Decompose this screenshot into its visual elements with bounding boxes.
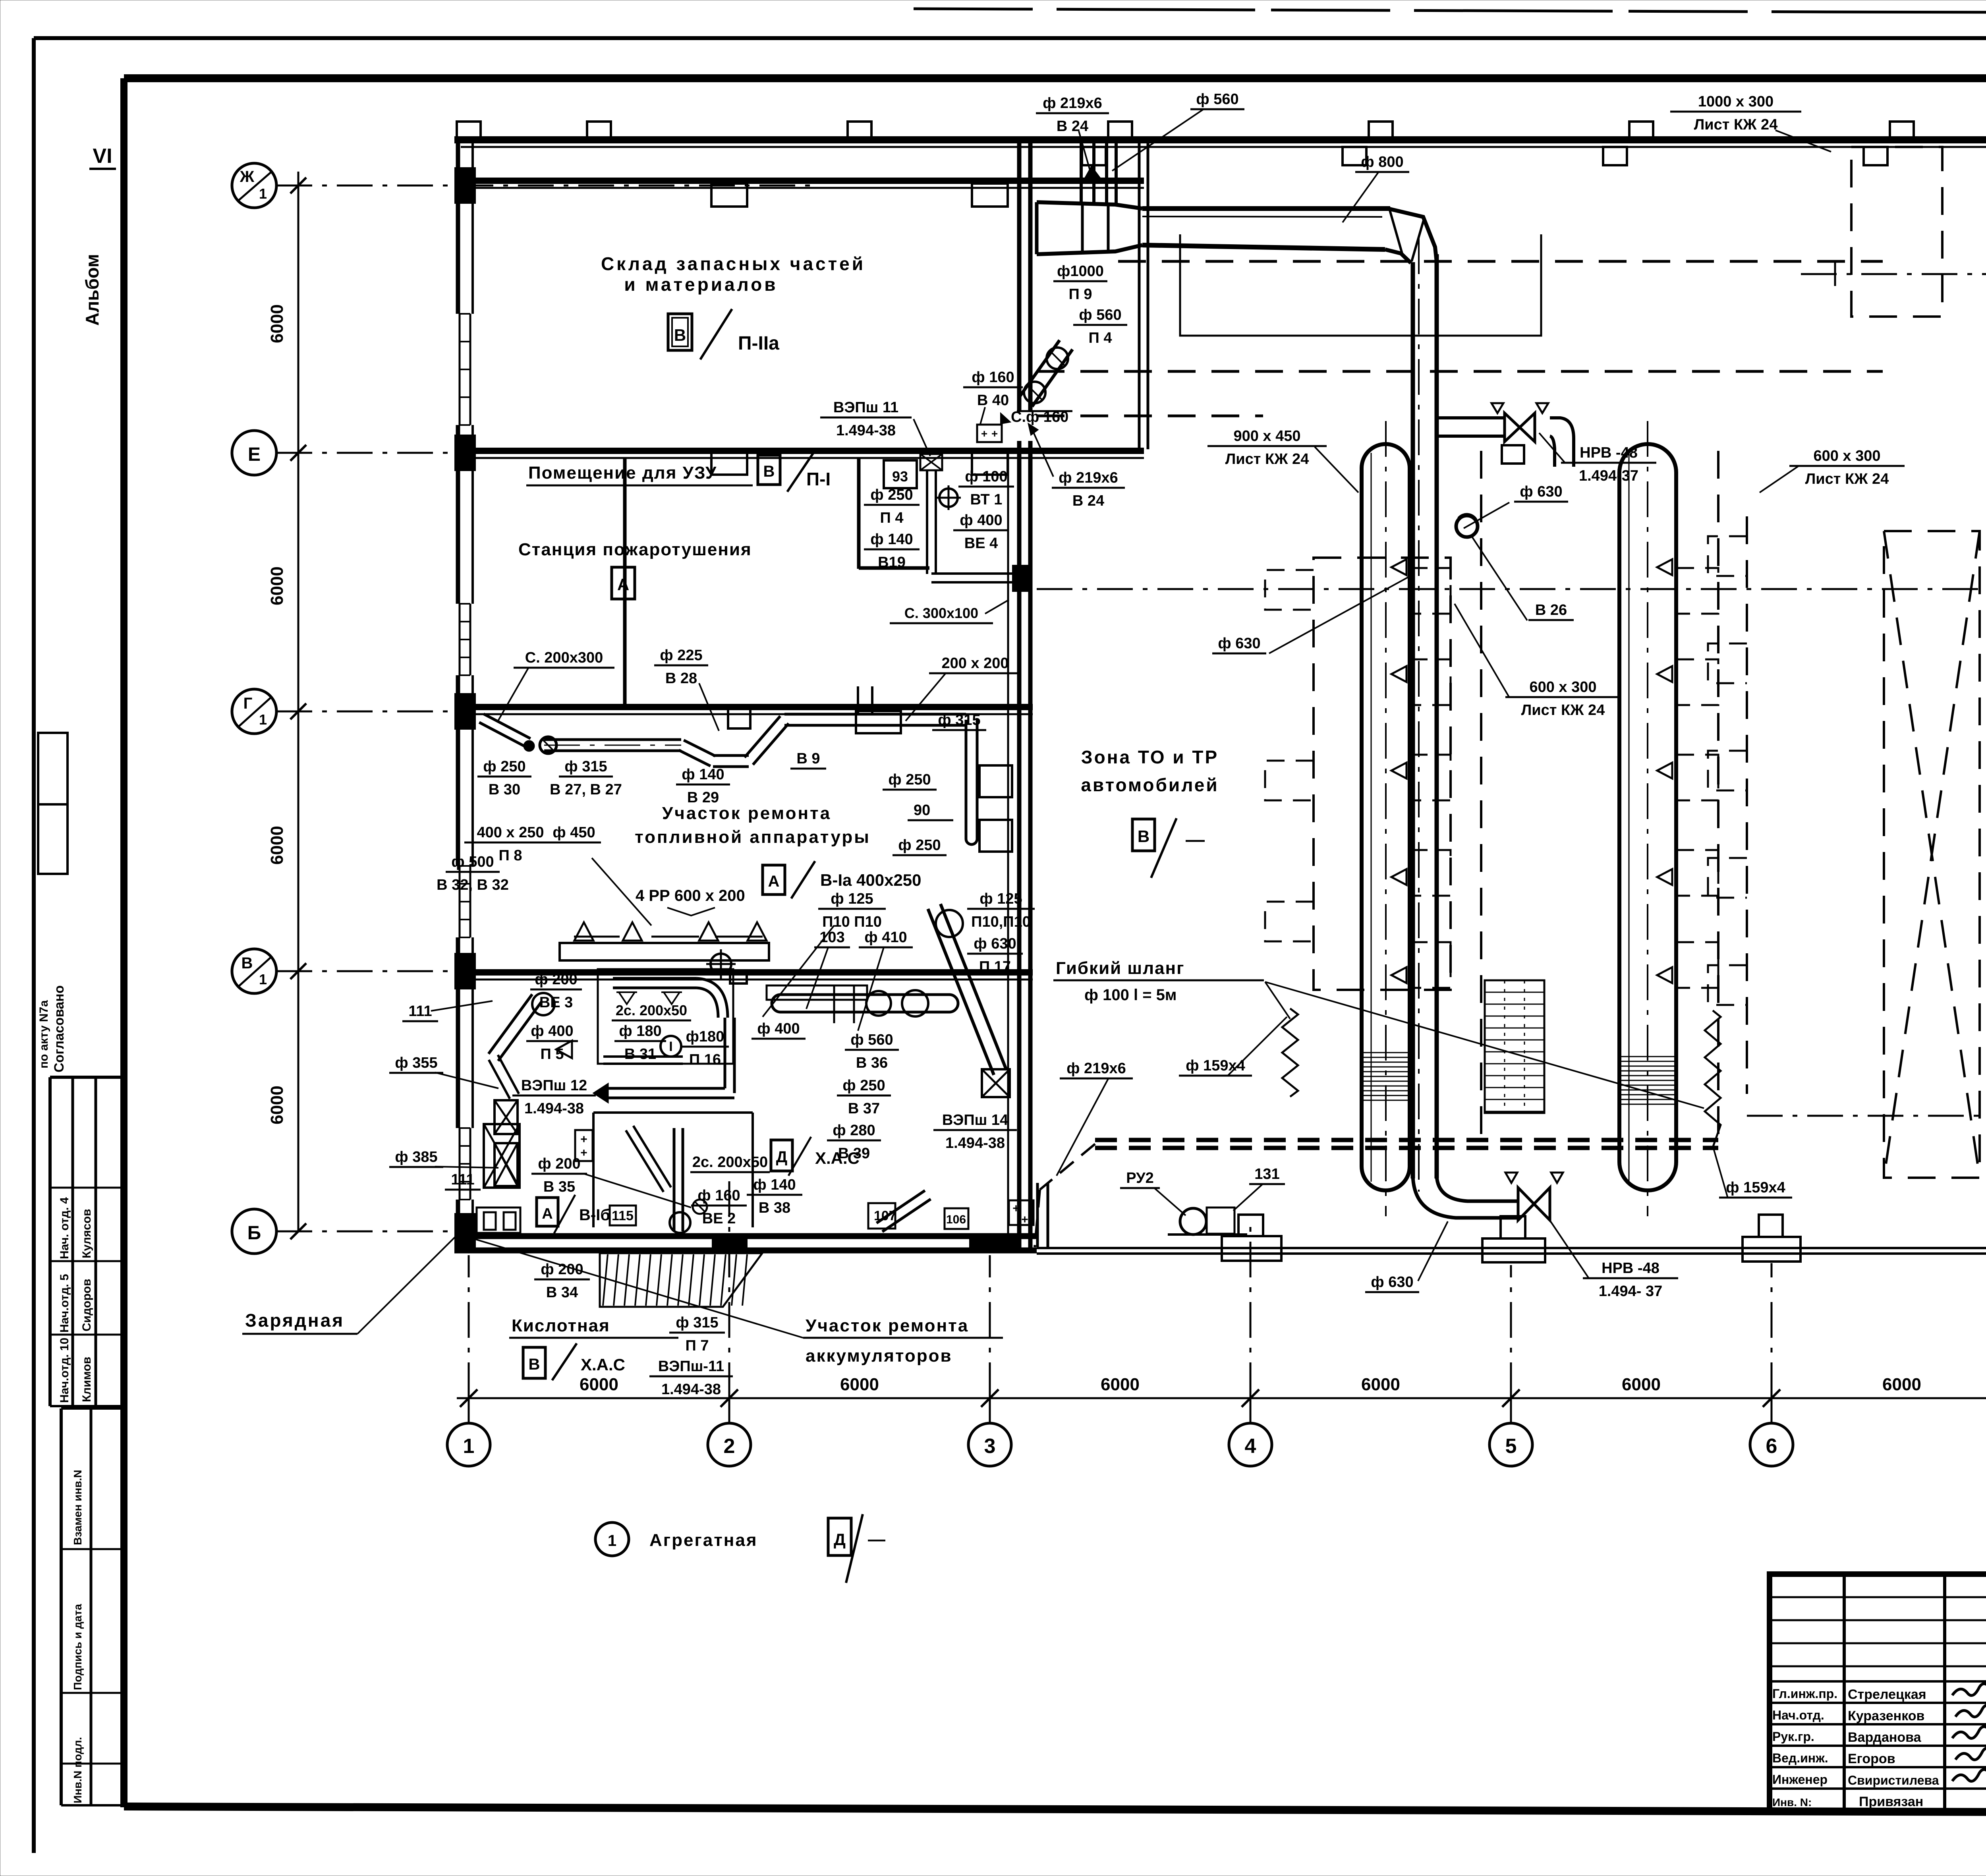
svg-text:+: + <box>991 427 998 440</box>
thin chamber outline around duct <box>1180 234 1541 336</box>
valve NRV-48 top bowtie <box>1505 413 1520 442</box>
underfloor duct dashed rect left <box>1314 558 1451 990</box>
label A V-Ib <box>537 1198 558 1226</box>
wall top pilasters <box>457 122 481 141</box>
svg-text:2: 2 <box>724 1435 735 1458</box>
svg-text:В 39: В 39 <box>838 1145 870 1162</box>
svg-text:ВЭПш 12: ВЭПш 12 <box>521 1077 587 1094</box>
axis circle 4 <box>1229 1423 1272 1466</box>
boxes 107 106 <box>868 1203 895 1229</box>
svg-text:В 24: В 24 <box>1072 493 1104 509</box>
svg-text:106: 106 <box>946 1213 966 1226</box>
svg-text:ВЕ 2: ВЕ 2 <box>702 1210 736 1227</box>
svg-text:Климов: Климов <box>80 1357 93 1402</box>
acid room machines row <box>477 1208 520 1233</box>
svg-text:А: А <box>768 873 780 890</box>
agregat room box outline <box>598 969 733 1064</box>
svg-text:П 9: П 9 <box>1068 286 1092 303</box>
dash-dot line y2809 <box>1747 1115 1986 1117</box>
svg-text:ВЭПш 11: ВЭПш 11 <box>833 399 898 416</box>
svg-text:В-Iа 400х250: В-Iа 400х250 <box>820 871 922 889</box>
svg-text:В 24: В 24 <box>1057 118 1088 135</box>
label uchastok line leader <box>465 1236 803 1338</box>
svg-text:ф 560: ф 560 <box>1196 91 1238 108</box>
axis circle В/1 <box>232 949 276 993</box>
svg-text:П10 П10: П10 П10 <box>822 914 882 930</box>
plus box agregat <box>575 1130 593 1161</box>
wall axis V1 interior <box>454 969 1033 976</box>
columns on axis Zh1 wall <box>711 184 747 207</box>
drawing frame <box>124 74 1986 82</box>
svg-text:1.494-38: 1.494-38 <box>661 1381 721 1398</box>
svg-text:6000: 6000 <box>267 826 287 865</box>
footing axis 6 <box>1743 1237 1801 1262</box>
svg-text:3: 3 <box>984 1435 996 1458</box>
svg-text:Лист КЖ 24: Лист КЖ 24 <box>1694 116 1778 133</box>
svg-text:Д: Д <box>834 1530 846 1549</box>
dashed line horizontal mid <box>1037 370 1883 373</box>
svg-text:4: 4 <box>1245 1435 1256 1458</box>
svg-text:ф 315: ф 315 <box>938 712 980 728</box>
machine duct assembly V1 room <box>780 993 949 996</box>
symbol D XAC battery <box>771 1140 792 1171</box>
svg-text:ф 180: ф 180 <box>619 1023 661 1039</box>
svg-text:ф 100 l = 5м: ф 100 l = 5м <box>1084 986 1177 1004</box>
svg-text:1: 1 <box>463 1435 475 1458</box>
wall axis G1 interior <box>454 704 1033 710</box>
svg-text:Помещение для УЗУ: Помещение для УЗУ <box>528 463 717 483</box>
agregat room duct 2s200x50 <box>613 977 697 980</box>
svg-text:В 34: В 34 <box>546 1284 578 1301</box>
partition station wall left <box>623 458 627 707</box>
svg-text:ф 355: ф 355 <box>395 1055 437 1071</box>
UZU room bottom wall <box>859 566 929 570</box>
dashed line horizontal upper <box>1118 260 1883 263</box>
UZU plus box <box>977 425 1002 442</box>
svg-text:ф 315: ф 315 <box>676 1314 718 1331</box>
RU2 circle <box>1180 1208 1206 1235</box>
symbol A box <box>612 567 635 599</box>
svg-text:Д: Д <box>776 1148 788 1166</box>
svg-text:Нач.отд. 5: Нач.отд. 5 <box>58 1274 71 1333</box>
svg-text:Варданова: Варданова <box>1848 1730 1922 1745</box>
svg-text:I: I <box>669 1039 672 1054</box>
UZU duct wall crossing damper <box>1012 565 1029 592</box>
svg-text:Лист КЖ 24: Лист КЖ 24 <box>1521 702 1605 719</box>
svg-text:6000: 6000 <box>1361 1375 1400 1394</box>
svg-text:ф 225: ф 225 <box>660 647 702 664</box>
svg-text:П-I: П-I <box>806 469 831 489</box>
svg-text:В 31: В 31 <box>624 1046 656 1063</box>
dash-dot line sklad <box>1801 273 1986 275</box>
svg-text:В: В <box>763 463 775 480</box>
svg-text:ф 250: ф 250 <box>870 487 913 503</box>
valve box below <box>1502 445 1524 464</box>
svg-text:В 27, В 27: В 27, В 27 <box>550 781 622 798</box>
symbol V dash zona <box>1132 819 1155 851</box>
svg-text:ВТ 1: ВТ 1 <box>970 491 1003 508</box>
underfloor stub squares far left <box>1265 570 1314 610</box>
bowtie fan lower 1 <box>495 1100 518 1134</box>
svg-text:РУ2: РУ2 <box>1126 1170 1154 1186</box>
svg-text:А: А <box>542 1206 553 1222</box>
svg-text:НРВ -48: НРВ -48 <box>1580 444 1638 461</box>
svg-text:+: + <box>1012 1202 1020 1215</box>
svg-text:Нач.отд.: Нач.отд. <box>1772 1708 1824 1722</box>
svg-text:VI: VI <box>93 145 112 168</box>
axis circle Г/1 <box>232 689 276 734</box>
svg-text:В 40: В 40 <box>977 392 1009 409</box>
svg-text:ф 250: ф 250 <box>842 1077 885 1094</box>
svg-text:С.ф 160: С.ф 160 <box>1011 409 1068 425</box>
svg-text:1000 х 300: 1000 х 300 <box>1698 93 1773 110</box>
dashed line horizontal short <box>1037 415 1263 417</box>
svg-text:Участок ремонта: Участок ремонта <box>806 1316 969 1335</box>
title block signatures scribbles <box>1952 1684 1986 1696</box>
svg-text:93: 93 <box>892 468 908 485</box>
svg-text:С. 300х100: С. 300х100 <box>904 605 978 621</box>
svg-text:400 х 250: 400 х 250 <box>477 824 544 841</box>
symbol V P-I <box>758 455 780 485</box>
footing axis 4 <box>1222 1236 1281 1261</box>
svg-text:В 30: В 30 <box>489 781 520 798</box>
svg-text:Х.А.С: Х.А.С <box>581 1355 625 1374</box>
svg-text:ф 160: ф 160 <box>972 369 1014 386</box>
svg-text:В 38: В 38 <box>759 1200 790 1216</box>
svg-text:ф 280: ф 280 <box>833 1122 875 1139</box>
svg-text:П 17: П 17 <box>979 958 1011 975</box>
partition station wall right <box>857 458 861 569</box>
wall axis B exterior <box>454 1233 1037 1239</box>
UZU fan unit hatch box <box>920 454 942 470</box>
hose leader lines <box>1265 982 1290 1019</box>
wall top exterior <box>454 136 1986 143</box>
svg-text:Склад запасных частей: Склад запасных частей <box>601 253 865 274</box>
svg-text:ф 219х6: ф 219х6 <box>1059 469 1118 486</box>
svg-text:ф 400: ф 400 <box>757 1020 800 1037</box>
svg-text:ф 250: ф 250 <box>898 837 941 854</box>
duct P9 horizontal ф800 <box>1142 206 1390 211</box>
svg-text:5: 5 <box>1505 1435 1517 1458</box>
svg-text:В 29: В 29 <box>687 789 719 806</box>
svg-text:Альбом: Альбом <box>82 254 102 326</box>
pipe ф159x4 heavy dashed run <box>1095 1138 1718 1142</box>
wall axis E interior <box>454 448 1144 454</box>
valve NRV-48 bottom bowtie <box>1518 1188 1534 1220</box>
svg-text:В 9: В 9 <box>796 750 820 767</box>
svg-text:Г: Г <box>243 695 253 712</box>
svg-text:600 х 300: 600 х 300 <box>1529 679 1596 696</box>
svg-text:Зона ТО и ТР: Зона ТО и ТР <box>1081 747 1219 767</box>
svg-text:—: — <box>1186 829 1205 850</box>
wall west column blocks <box>454 167 476 204</box>
svg-text:Кислотная: Кислотная <box>512 1316 610 1335</box>
svg-text:Ж: Ж <box>240 168 255 185</box>
svg-text:В 32, В 32: В 32, В 32 <box>437 877 509 893</box>
svg-text:ф 315: ф 315 <box>564 758 607 775</box>
svg-text:6000: 6000 <box>267 1086 287 1124</box>
svg-text:600 х 300: 600 х 300 <box>1813 448 1880 464</box>
svg-text:+: + <box>1021 1213 1028 1226</box>
svg-text:Егоров: Егоров <box>1848 1751 1895 1766</box>
svg-text:Вед.инж.: Вед.инж. <box>1772 1751 1828 1765</box>
svg-text:107: 107 <box>874 1208 896 1223</box>
svg-text:Куразенков: Куразенков <box>1848 1708 1924 1723</box>
supply nozzles triangles left duct <box>1391 559 1406 575</box>
svg-text:ф 250: ф 250 <box>483 758 525 775</box>
svg-text:В: В <box>1138 827 1149 846</box>
symbol V XAC <box>523 1347 545 1378</box>
bottom axis dash-dot lines <box>468 1255 470 1398</box>
svg-text:2с. 200х50: 2с. 200х50 <box>616 1002 687 1018</box>
axis circle Е <box>232 431 276 475</box>
svg-text:6000: 6000 <box>267 304 287 343</box>
flexible hose zigzag right <box>1705 1010 1721 1148</box>
svg-text:Привязан: Привязан <box>1859 1794 1923 1809</box>
svg-text:П-IIа: П-IIа <box>738 333 779 354</box>
exhaust duct right stadium <box>1619 444 1676 1190</box>
wall axis Zh1 interior <box>454 178 1144 184</box>
svg-text:131: 131 <box>1254 1166 1279 1182</box>
svg-text:П 7: П 7 <box>685 1337 709 1354</box>
axis circle 5 <box>1489 1423 1532 1466</box>
svg-text:900 х 450: 900 х 450 <box>1233 428 1300 444</box>
svg-text:Взамен инв.N: Взамен инв.N <box>71 1470 84 1545</box>
svg-text:П 5: П 5 <box>540 1046 564 1063</box>
svg-text:2с. 200х50: 2с. 200х50 <box>692 1154 768 1171</box>
axis circle 3 <box>968 1423 1011 1466</box>
svg-text:А: А <box>617 575 629 594</box>
svg-text:В 37: В 37 <box>848 1100 880 1117</box>
svg-text:Подпись и дата: Подпись и дата <box>71 1604 84 1690</box>
svg-text:Станция пожаротушения: Станция пожаротушения <box>518 540 752 559</box>
bowtie fan lower 2 <box>495 1143 518 1186</box>
title block frame <box>1770 1574 1986 1811</box>
svg-text:П 4: П 4 <box>1088 330 1112 346</box>
duct stub arrow marks <box>1084 167 1101 180</box>
svg-text:Зарядная: Зарядная <box>245 1310 344 1331</box>
bottom dimension line <box>457 1397 1986 1399</box>
duct P9 elbow <box>1386 208 1437 262</box>
svg-text:—: — <box>868 1530 885 1549</box>
svg-text:Лист КЖ 24: Лист КЖ 24 <box>1805 471 1889 487</box>
svg-text:Кулясов: Кулясов <box>80 1209 93 1258</box>
svg-text:111: 111 <box>408 1003 432 1020</box>
duct riser through G1 wall <box>857 686 859 713</box>
small triangle P5 <box>556 1041 572 1058</box>
svg-text:Нач.отд. 10: Нач.отд. 10 <box>58 1338 71 1403</box>
page outer border <box>34 36 1986 40</box>
duct stub from west wall G1 <box>479 723 526 747</box>
svg-text:ф 250: ф 250 <box>888 771 931 788</box>
svg-text:ф 160: ф 160 <box>697 1187 740 1204</box>
stairs hatch <box>1485 980 1544 1113</box>
axis circle 2 <box>708 1423 751 1466</box>
axis circle Ж/1 <box>232 163 276 208</box>
duct run fuel room zigzag <box>544 750 681 752</box>
column on axis G1 wall <box>728 708 750 728</box>
svg-text:1.494-38: 1.494-38 <box>524 1100 584 1117</box>
svg-text:ВЕ 4: ВЕ 4 <box>964 535 998 552</box>
svg-text:П10,П10: П10,П10 <box>971 914 1031 930</box>
ramp hatched <box>600 1253 762 1307</box>
wall west exterior <box>456 140 460 1250</box>
supply nozzles triangles right duct <box>1657 559 1672 575</box>
dash-dot line y1483 <box>1037 588 1986 590</box>
fan circle B27 <box>540 737 556 753</box>
scan streak top edge <box>914 9 1827 12</box>
wall vertical axis3 main <box>1007 449 1009 1250</box>
svg-text:В: В <box>241 954 253 972</box>
duct drop right with outlets <box>965 720 968 839</box>
svg-text:Сидоров: Сидоров <box>80 1279 93 1331</box>
svg-text:ф 630: ф 630 <box>1218 635 1260 652</box>
svg-text:С. 200х300: С. 200х300 <box>525 649 603 666</box>
underfloor duct dashed vertical right <box>1717 451 1719 1148</box>
UZU vertical duct <box>926 470 928 574</box>
svg-text:+: + <box>580 1133 587 1146</box>
UZU circle cross <box>939 489 958 507</box>
wall west window openings <box>455 314 475 425</box>
duct stub elbow after valve <box>1550 418 1574 467</box>
svg-text:Гл.инж.пр.: Гл.инж.пр. <box>1772 1687 1837 1701</box>
supply unit 4RR 600x200 <box>560 943 769 960</box>
fan diagonal west <box>489 994 532 1054</box>
svg-text:ф180: ф180 <box>686 1028 724 1045</box>
svg-text:В: В <box>529 1356 540 1373</box>
duct P9 intake transition <box>1037 202 1142 209</box>
svg-text:В 26: В 26 <box>1535 602 1567 618</box>
svg-text:ВЭПш 14: ВЭПш 14 <box>942 1112 1008 1128</box>
svg-text:Рук.гр.: Рук.гр. <box>1772 1729 1814 1744</box>
svg-text:1.494-38: 1.494-38 <box>945 1135 1005 1151</box>
svg-text:Участок ремонта: Участок ремонта <box>662 804 831 823</box>
left stadium grill <box>1362 1052 1409 1053</box>
svg-text:103: 103 <box>819 929 844 946</box>
symbol V P-IIa left <box>668 314 692 350</box>
svg-text:ф 400: ф 400 <box>531 1023 573 1039</box>
svg-text:Б: Б <box>247 1223 261 1244</box>
exhaust duct left stadium <box>1362 444 1410 1190</box>
svg-text:ф 100: ф 100 <box>965 468 1007 485</box>
UZU box 93 <box>884 460 917 488</box>
svg-text:Стрелецкая: Стрелецкая <box>1848 1687 1926 1702</box>
svg-text:200 х 200: 200 х 200 <box>941 655 1008 672</box>
underfloor stubs right duct <box>1676 568 1718 614</box>
svg-text:ф 200: ф 200 <box>535 971 577 988</box>
svg-text:и материалов: и материалов <box>624 274 778 295</box>
svg-text:В-Iб: В-Iб <box>579 1206 610 1224</box>
svg-text:Свиристилева: Свиристилева <box>1848 1773 1939 1787</box>
svg-text:ВЕ 3: ВЕ 3 <box>539 994 573 1011</box>
right stadium grill <box>1620 1056 1675 1057</box>
duct stub top to valve <box>1437 416 1503 419</box>
svg-text:ф 560: ф 560 <box>850 1032 893 1048</box>
svg-text:6000: 6000 <box>1101 1375 1140 1394</box>
svg-text:6000: 6000 <box>267 566 287 605</box>
svg-text:1.494-38: 1.494-38 <box>836 422 896 439</box>
svg-text:ф 400: ф 400 <box>960 512 1002 529</box>
axis circle 1 <box>447 1423 490 1466</box>
svg-text:+: + <box>580 1146 587 1159</box>
svg-text:П 8: П 8 <box>498 847 522 864</box>
pipe dashed diagonal to wall <box>1040 1144 1095 1190</box>
svg-text:аккумуляторов: аккумуляторов <box>806 1346 952 1366</box>
svg-text:6000: 6000 <box>840 1375 879 1394</box>
svg-text:Согласовано: Согласовано <box>52 985 67 1073</box>
stamp small boxes upper <box>38 733 68 804</box>
svg-text:ф1000: ф1000 <box>1057 263 1104 280</box>
svg-text:ф 410: ф 410 <box>864 929 907 946</box>
underfloor stubs left duct <box>1410 568 1451 614</box>
pit crossed dashed rectangle <box>1884 531 1980 1178</box>
svg-text:ф 125: ф 125 <box>831 891 873 907</box>
svg-text:ф 385: ф 385 <box>395 1149 437 1165</box>
svg-text:6: 6 <box>1766 1435 1777 1458</box>
axis circle 6 <box>1750 1423 1793 1466</box>
battery room duct vertical <box>673 1128 676 1231</box>
flexible hose zigzag left <box>1282 1009 1298 1097</box>
UZU L-duct to wall <box>931 581 1014 583</box>
duct riser bottom elbow <box>1413 1176 1518 1218</box>
svg-text:ф 219х6: ф 219х6 <box>1043 95 1102 112</box>
svg-text:1.494- 37: 1.494- 37 <box>1599 1283 1663 1300</box>
svg-text:111: 111 <box>451 1171 474 1188</box>
svg-text:ф 140: ф 140 <box>753 1177 796 1193</box>
svg-text:ф 159х4: ф 159х4 <box>1726 1179 1785 1196</box>
svg-text:1: 1 <box>608 1532 616 1549</box>
svg-text:В 35: В 35 <box>543 1179 575 1195</box>
svg-text:ф 630: ф 630 <box>1371 1274 1413 1291</box>
svg-text:П 4: П 4 <box>880 510 903 526</box>
plus box lower right <box>1009 1200 1034 1225</box>
svg-text:автомобилей: автомобилей <box>1081 775 1219 795</box>
svg-text:6000: 6000 <box>1882 1375 1921 1394</box>
columns on axis E wall <box>711 453 747 475</box>
svg-text:ф 800: ф 800 <box>1361 154 1403 170</box>
wall shaft east of UZU <box>1138 140 1141 449</box>
svg-text:ВЭПш-11: ВЭПш-11 <box>658 1358 724 1375</box>
svg-text:топливной аппаратуры: топливной аппаратуры <box>635 827 871 847</box>
damper circle V26 <box>1456 516 1478 537</box>
stamp table lower <box>60 1408 63 1805</box>
svg-text:Е: Е <box>248 444 261 465</box>
stamp table approvals <box>50 1076 124 1079</box>
svg-text:ф 200: ф 200 <box>538 1155 580 1172</box>
svg-text:90: 90 <box>914 802 930 819</box>
svg-text:Инв. N:: Инв. N: <box>1772 1796 1812 1808</box>
duct stubs through top wall to intake <box>1080 142 1083 203</box>
svg-text:В 36: В 36 <box>856 1055 888 1071</box>
svg-text:Агрегатная: Агрегатная <box>649 1530 758 1550</box>
wall axis B column blobs <box>712 1234 748 1253</box>
svg-text:6000: 6000 <box>1622 1375 1661 1394</box>
wall top column blocks below <box>1082 147 1106 165</box>
duct vertical x2625 <box>1036 1183 1039 1247</box>
dashed rect sklad top <box>1851 147 1942 317</box>
left dimension line <box>298 172 299 1231</box>
svg-text:4 РР 600 х 200: 4 РР 600 х 200 <box>636 887 745 904</box>
svg-text:Гибкий шланг: Гибкий шланг <box>1056 958 1184 978</box>
svg-text:ф 125: ф 125 <box>979 891 1022 907</box>
svg-text:П 16: П 16 <box>689 1051 721 1068</box>
svg-text:Инв.N подл.: Инв.N подл. <box>71 1737 84 1803</box>
svg-text:ф 500: ф 500 <box>451 854 494 870</box>
battery room partition outline <box>592 1113 595 1227</box>
svg-text:НРВ -48: НРВ -48 <box>1602 1260 1660 1277</box>
underfloor duct dashed vertical right2 <box>1746 516 1748 1094</box>
diagonal duct P10 ф630 <box>928 909 994 1075</box>
